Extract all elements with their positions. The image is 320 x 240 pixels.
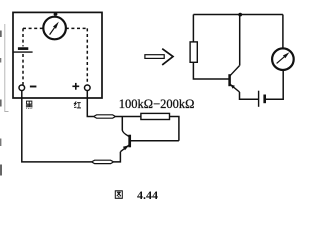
scan mark 2 [0, 58, 1, 63]
wire base lead [131, 140, 179, 142]
label 图 (figure) [115, 191, 122, 198]
probe (black lead) [92, 160, 114, 163]
meter M2 [272, 48, 294, 70]
scan mark 5 [0, 165, 2, 176]
plus sign [72, 83, 79, 90]
wire top rail [193, 14, 283, 16]
probe (red lead) [94, 115, 116, 118]
label 红 (red) [74, 102, 81, 108]
scan mark 3 [0, 100, 2, 107]
battery B2 [259, 91, 265, 107]
wire (dashed, red terminal riser) [86, 28, 88, 84]
terminal (red) [85, 85, 91, 91]
wire (dashed, meter left) [23, 27, 43, 29]
svg-text:4.44: 4.44 [137, 188, 158, 202]
wire resistor to base [193, 62, 228, 79]
wire meter to top rail [282, 15, 284, 48]
transistor Q1 [120, 130, 129, 152]
implication arrow [145, 49, 173, 65]
node junction [238, 13, 242, 17]
wire probe to emitter [114, 152, 121, 162]
multimeter case [13, 12, 102, 98]
wire battery to meter [266, 71, 283, 100]
resistor R1 (100k-200k) [141, 113, 170, 119]
wire (dashed, battery top) [22, 28, 24, 46]
wire rail to resistor [192, 15, 194, 42]
wire red lead (down and right) [87, 91, 93, 117]
label 黑 (black) [26, 101, 33, 109]
battery B1 [13, 49, 32, 53]
wire collector to node [239, 15, 241, 66]
scan mark 4 [0, 139, 1, 147]
transistor Q2 [230, 66, 240, 92]
meter M1 [43, 17, 66, 40]
scan edge line [5, 24, 9, 112]
wire emitter to battery [240, 92, 259, 99]
wire (dashed, battery to black terminal) [22, 54, 24, 85]
scan mark 1 [0, 31, 2, 38]
resistor R2 [190, 42, 197, 62]
svg-text:100kΩ−200kΩ: 100kΩ−200kΩ [119, 97, 195, 111]
wire (dashed, meter right) [66, 27, 88, 29]
wire resistor to base corner [170, 117, 179, 141]
meter zero-adjust mark [54, 12, 58, 15]
minus sign [30, 86, 37, 88]
wire probe to resistor [116, 116, 141, 118]
terminal (black) [19, 85, 25, 91]
wire collector riser [121, 117, 123, 131]
wire black lead (down and right) [22, 91, 92, 162]
